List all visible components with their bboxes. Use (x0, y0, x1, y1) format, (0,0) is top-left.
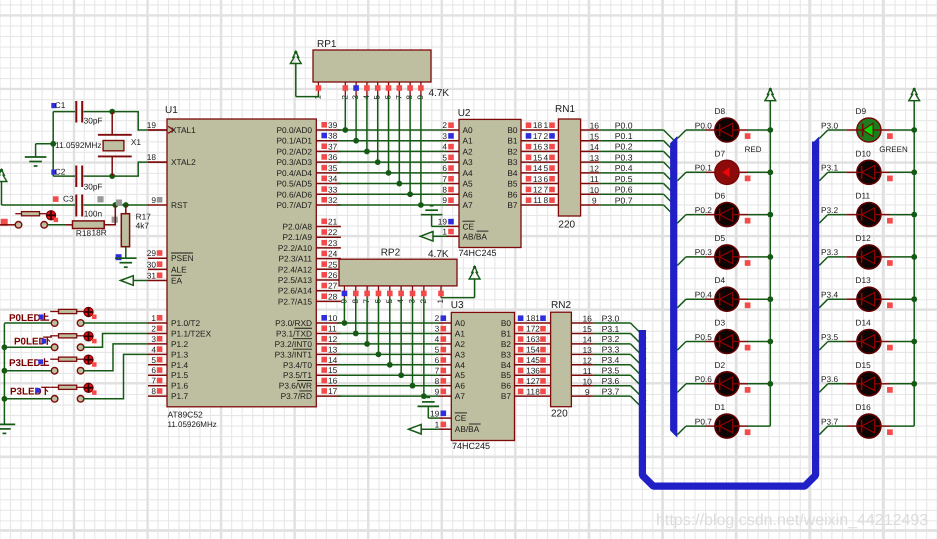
wire D12 to rail (881, 257, 915, 266)
wire U3 B2 to RN (515, 334, 551, 344)
RP1 pin 5 (373, 82, 382, 100)
wire U3 B0 to RN (515, 313, 551, 323)
wire RP2 pin4 to P3.5 (400, 298, 402, 376)
svg-text:30: 30 (147, 259, 157, 269)
svg-text:P0.2: P0.2 (695, 205, 712, 215)
LED D14 (856, 318, 881, 354)
svg-text:16: 16 (582, 314, 592, 324)
pin 1 P1.0 (148, 313, 167, 323)
arrow U3 AB/BA input (409, 424, 422, 434)
arrow EA input (121, 276, 134, 286)
svg-text:14: 14 (533, 163, 543, 173)
node P3.4 junction (387, 362, 393, 368)
svg-text:2: 2 (442, 120, 447, 130)
label net P0.6 (695, 374, 712, 384)
pin 3 P1.2 (148, 334, 167, 344)
svg-text:D14: D14 (856, 318, 872, 328)
svg-text:4: 4 (442, 142, 447, 152)
svg-text:EA: EA (171, 276, 183, 286)
wire bus to D8 (677, 130, 715, 139)
svg-text:5: 5 (535, 355, 540, 365)
svg-text:D6: D6 (715, 191, 726, 201)
svg-text:P3.0/RXD: P3.0/RXD (275, 318, 312, 328)
wire bus to D11 (819, 215, 857, 224)
wire RN2 pin 16 net P3.0 (571, 313, 646, 338)
svg-text:18: 18 (526, 313, 536, 323)
node P3.5 junction (398, 372, 404, 378)
svg-text:4: 4 (543, 152, 548, 162)
svg-text:6: 6 (151, 365, 156, 375)
RP2 pin 1 (436, 286, 445, 304)
U1 pin names right (275, 125, 313, 401)
svg-text:7: 7 (435, 365, 440, 375)
svg-text:5: 5 (151, 355, 156, 365)
switch button 1 (4, 307, 96, 326)
svg-text:P0.2/AD2: P0.2/AD2 (276, 146, 312, 156)
resistor pack RP1 (313, 39, 449, 99)
LED D6 (715, 191, 739, 227)
svg-text:B0: B0 (507, 125, 518, 135)
svg-text:B5: B5 (501, 370, 512, 380)
svg-text:A6: A6 (455, 381, 466, 391)
wire C1 left rail (52, 112, 54, 177)
svg-text:P1.3: P1.3 (171, 349, 188, 359)
node rail1 D3 (767, 339, 773, 345)
RP1 pin 1 (313, 82, 322, 100)
svg-text:12: 12 (582, 356, 592, 366)
wire RP2 pin6 to P3.3 (377, 298, 379, 355)
ground button rail (0, 424, 15, 433)
label net P0.2 (695, 205, 712, 215)
wire P0.2 U1 to U2 (337, 150, 447, 152)
svg-text:21: 21 (328, 217, 338, 227)
svg-text:10: 10 (582, 376, 592, 386)
svg-text:19: 19 (430, 408, 440, 418)
svg-text:7: 7 (151, 376, 156, 386)
wire U2 B5 to RN (521, 174, 558, 184)
svg-text:P3.7: P3.7 (821, 416, 838, 426)
U1 pin names left (171, 125, 212, 401)
svg-text:100n: 100n (84, 208, 103, 218)
wire D3 to rail (739, 342, 771, 351)
svg-text:ALE: ALE (171, 264, 187, 274)
svg-text:14: 14 (328, 355, 338, 365)
svg-text:P0.0: P0.0 (615, 120, 633, 130)
wire P0.0 U1 to U2 (337, 129, 447, 131)
pin 26 P2.5 (316, 270, 341, 280)
pin 22 P2.1 (316, 227, 341, 237)
label P3LED down (10, 387, 50, 398)
svg-text:11: 11 (328, 323, 337, 333)
svg-text:1: 1 (543, 120, 548, 130)
wire D14 to rail (881, 342, 915, 351)
node P0.2 junction (364, 149, 370, 155)
node cap rail junction (50, 141, 56, 147)
svg-text:6: 6 (543, 174, 548, 184)
pin 8 P1.7 (148, 386, 167, 396)
svg-text:A7: A7 (463, 200, 474, 210)
wire bus to D2 (677, 384, 715, 393)
label net P3.0 (821, 120, 838, 130)
node P3.1 junction (353, 331, 359, 337)
wire U2 B7 to RN (521, 195, 558, 205)
U3 pin 19 CE (428, 408, 451, 418)
svg-text:D9: D9 (856, 106, 867, 116)
svg-text:B6: B6 (501, 381, 512, 391)
svg-text:P3.2/INT0: P3.2/INT0 (275, 339, 313, 349)
resistor network RN1 (555, 104, 581, 231)
wire RP2 pin1 to power (441, 297, 475, 299)
wire RN1 pin 10 net P0.6 (581, 185, 677, 208)
svg-text:24: 24 (328, 249, 338, 259)
wire button2 to P1.1 (84, 333, 149, 347)
svg-text:C3: C3 (63, 193, 74, 203)
svg-text:15: 15 (582, 324, 592, 334)
svg-text:RP1: RP1 (317, 39, 337, 50)
svg-text:B2: B2 (501, 339, 512, 349)
wire U2 B0 to RN (521, 120, 558, 130)
resistor network RN2 (551, 300, 572, 420)
RP1 pin 8 (405, 82, 414, 100)
svg-text:B7: B7 (507, 200, 518, 210)
pin 12 P3.2 (316, 334, 341, 344)
svg-text:D15: D15 (856, 360, 872, 370)
svg-text:29: 29 (147, 248, 157, 258)
svg-text:15: 15 (590, 131, 600, 141)
svg-text:P0.6/AD6: P0.6/AD6 (276, 189, 312, 199)
svg-text:B6: B6 (507, 189, 518, 199)
power arrow LED column 2 (909, 88, 920, 101)
svg-text:18R: 18R (92, 228, 107, 238)
pin 35 P0.4 (316, 163, 341, 173)
pin 24 P2.3 (316, 249, 341, 259)
svg-text:7: 7 (442, 174, 447, 184)
wire D2 to rail (739, 384, 771, 393)
svg-text:XTAL1: XTAL1 (171, 125, 196, 135)
svg-text:P3.0: P3.0 (602, 313, 620, 323)
LED D10 (856, 148, 881, 184)
pin 29 PSEN (147, 248, 167, 258)
svg-text:8: 8 (535, 386, 540, 396)
wire P0.1 U1 to U2 (337, 140, 447, 142)
wire bus to D3 (677, 342, 715, 351)
wire C1 to XTAL1 (112, 112, 167, 130)
svg-text:16: 16 (533, 142, 543, 152)
svg-text:PSEN: PSEN (171, 253, 194, 263)
power arrow left edge (0, 169, 7, 205)
svg-text:P0.5/AD5: P0.5/AD5 (276, 179, 312, 189)
wire RP1 pin8 to P0.6 (409, 96, 411, 194)
svg-text:P3.1/TXD: P3.1/TXD (276, 328, 312, 338)
U2 pin 2 A0 (442, 120, 459, 130)
RP1 pin 7 (394, 82, 403, 100)
wire bus to D16 (819, 426, 857, 435)
U3 pin 6 A4 (435, 355, 452, 365)
svg-text:U2: U2 (458, 108, 471, 119)
wire button3 to P1.2 (84, 344, 149, 371)
svg-text:9: 9 (442, 195, 447, 205)
svg-text:D12: D12 (856, 233, 872, 243)
node rail2 D10 (911, 169, 917, 175)
svg-text:https://blog.csdn.net/weixin_4: https://blog.csdn.net/weixin_44212493 (656, 512, 928, 529)
label RED (745, 145, 762, 154)
wire D15 to rail (881, 384, 915, 393)
node P0.3 junction (375, 159, 381, 165)
switch button 2 (4, 332, 96, 351)
U3 pin 8 A6 (435, 376, 452, 386)
svg-text:A0: A0 (455, 318, 466, 328)
svg-text:P3.5: P3.5 (602, 366, 620, 376)
svg-text:32: 32 (328, 195, 338, 205)
svg-text:P0.7/AD7: P0.7/AD7 (276, 200, 312, 210)
svg-text:1: 1 (436, 299, 445, 304)
svg-text:3: 3 (435, 324, 440, 334)
wire RP2 pin3 to P3.6 (412, 298, 414, 386)
pin 7 P1.6 (148, 376, 167, 386)
svg-text:P0.5: P0.5 (615, 174, 633, 184)
svg-text:RST: RST (171, 200, 188, 210)
LED D5 (715, 233, 739, 269)
wire U3 B6 to RN (515, 376, 551, 386)
svg-text:4k7: 4k7 (136, 221, 150, 231)
wire bus to D7 (677, 172, 715, 181)
LED D13 (856, 275, 881, 311)
label net P0.7 (695, 416, 712, 426)
pin 5 P1.4 (148, 355, 167, 365)
svg-text:P0.5: P0.5 (695, 332, 712, 342)
wire P3.2 U1 to U3 (337, 343, 439, 345)
pin 11 P3.1 (316, 323, 341, 333)
wire bus to D4 (677, 299, 715, 308)
svg-text:7: 7 (535, 376, 540, 386)
svg-text:74HC245: 74HC245 (452, 441, 490, 451)
svg-text:P3.2: P3.2 (602, 334, 620, 344)
svg-text:RN1: RN1 (555, 104, 575, 115)
capacitor C3 (53, 193, 103, 218)
svg-text:X1: X1 (131, 137, 142, 147)
resistor R17 (121, 205, 151, 258)
node P0.1 junction (353, 138, 359, 144)
svg-text:D7: D7 (715, 148, 726, 158)
arrow U2 AB/BA input (420, 232, 433, 242)
svg-text:9: 9 (151, 195, 156, 205)
svg-text:P2.2/A10: P2.2/A10 (278, 243, 313, 253)
wire RP1 pin6 to P0.4 (388, 96, 390, 173)
wire D7 to rail (739, 172, 771, 181)
LED D11 (856, 191, 881, 227)
svg-text:16: 16 (526, 334, 536, 344)
svg-text:GREEN: GREEN (879, 145, 908, 154)
svg-text:13: 13 (526, 365, 536, 375)
svg-text:P3.7/RD: P3.7/RD (281, 391, 312, 401)
node rail1 D7 (767, 169, 773, 175)
wire P0.3 U1 to U2 (337, 161, 447, 163)
wire bus to D6 (677, 215, 715, 224)
svg-text:8: 8 (543, 195, 548, 205)
svg-text:8: 8 (435, 376, 440, 386)
svg-text:13: 13 (328, 344, 338, 354)
pin 34 P0.5 (316, 174, 341, 184)
pin 10 P3.0 (316, 313, 341, 323)
svg-text:P3.4: P3.4 (602, 355, 620, 365)
svg-text:19: 19 (438, 217, 448, 227)
RP1 pin 6 (384, 82, 393, 100)
bus P3 top chamfer (812, 136, 819, 143)
svg-text:25: 25 (328, 259, 338, 269)
svg-text:P2.0/A8: P2.0/A8 (282, 222, 312, 232)
wire P0.7 U1 to U2 (337, 204, 447, 206)
svg-text:P3.6/WR: P3.6/WR (279, 381, 312, 391)
label net P3.3 (821, 247, 838, 257)
wire P0.6 U1 to U2 (337, 193, 447, 195)
svg-text:3: 3 (442, 131, 447, 141)
svg-text:C2: C2 (55, 166, 66, 176)
wire bus to D10 (819, 172, 857, 181)
svg-text:P0.4: P0.4 (695, 290, 712, 300)
svg-text:P3.3/INT1: P3.3/INT1 (275, 349, 313, 359)
wire LED rail 1 (769, 101, 771, 426)
svg-text:XTAL2: XTAL2 (171, 157, 196, 167)
svg-text:D13: D13 (856, 275, 872, 285)
node rail2 D12 (911, 254, 917, 260)
svg-text:17: 17 (533, 131, 543, 141)
svg-text:11: 11 (583, 366, 592, 376)
bus P0 LED column (670, 136, 677, 438)
svg-text:RN2: RN2 (551, 300, 571, 311)
pin 32 P0.7 (316, 195, 341, 205)
svg-text:B3: B3 (501, 349, 512, 359)
svg-text:P3.6: P3.6 (821, 374, 838, 384)
svg-text:9: 9 (435, 386, 440, 396)
node P3.2 junction (364, 341, 370, 347)
svg-text:27: 27 (328, 281, 338, 291)
wire U2 B2 to RN (521, 142, 558, 152)
svg-text:11.05926MHz: 11.05926MHz (168, 420, 217, 429)
wire RP1 pin2 to P0.0 (344, 96, 346, 130)
svg-text:B7: B7 (501, 391, 512, 401)
wire RP1 pin5 to P0.3 (377, 96, 379, 162)
svg-text:D5: D5 (715, 233, 726, 243)
svg-text:18: 18 (533, 120, 543, 130)
wire P3.4 U1 to U3 (337, 364, 439, 366)
buffer U2 74HC245 body (458, 108, 521, 258)
wire RN1 pin 11 net P0.5 (581, 174, 677, 197)
ground U3 CE (418, 397, 440, 418)
node P0.4 junction (386, 170, 392, 176)
svg-text:B0: B0 (501, 318, 512, 328)
label net P3.6 (821, 374, 838, 384)
pin 19 XTAL1 (147, 120, 167, 130)
svg-text:CE: CE (455, 413, 467, 423)
node rail2 D9 (911, 127, 917, 133)
svg-text:P0LED: P0LED (9, 313, 41, 324)
wire bus to D13 (819, 299, 857, 308)
svg-text:P3.1: P3.1 (821, 163, 838, 173)
svg-text:P3.2: P3.2 (821, 205, 838, 215)
svg-text:P2.6/A14: P2.6/A14 (278, 286, 313, 296)
svg-text:D4: D4 (715, 275, 726, 285)
pin 39 P0.0 (316, 120, 341, 130)
node RST junction 1 (112, 202, 118, 208)
wire RN1 pin 15 net P0.1 (581, 131, 677, 154)
node rail junction 1 (0, 0, 1, 1)
RP2 pin 2 (419, 286, 428, 304)
wire D6 to rail (739, 215, 771, 224)
LED D4 (715, 275, 739, 311)
svg-text:33: 33 (328, 184, 338, 194)
label net P0.1 (695, 163, 712, 173)
svg-text:14: 14 (590, 142, 600, 152)
pin 23 P2.2 (316, 238, 341, 248)
pin 25 P2.4 (316, 259, 341, 269)
svg-text:P0.4/AD4: P0.4/AD4 (276, 168, 312, 178)
node P0.0 junction (342, 127, 348, 133)
pin 13 P3.3 (316, 344, 341, 354)
wire P3.0 U1 to U3 (337, 322, 439, 324)
wire RP2 pin9 to P3.0 (343, 298, 345, 323)
svg-text:P1.0/T2: P1.0/T2 (171, 318, 200, 328)
svg-text:P1.4: P1.4 (171, 360, 188, 370)
svg-text:22: 22 (328, 227, 338, 237)
wire RN2 pin 14 net P3.2 (571, 334, 646, 359)
svg-text:37: 37 (328, 141, 338, 151)
svg-text:13: 13 (590, 153, 600, 163)
label P0LED down (14, 337, 52, 348)
svg-text:16: 16 (590, 121, 600, 131)
svg-text:5: 5 (543, 163, 548, 173)
RP1 pin 9 (416, 82, 425, 100)
wire U2 B1 to RN (521, 131, 558, 141)
label net P3.2 (821, 205, 838, 215)
svg-text:B2: B2 (507, 146, 518, 156)
wire button1 to P1.0 (84, 322, 149, 324)
wire bus to D15 (819, 384, 857, 393)
label net P3.1 (821, 163, 838, 173)
pin 6 P1.5 (148, 365, 167, 375)
svg-text:CE: CE (463, 221, 475, 231)
switch button 4 (4, 383, 96, 402)
wire D8 to rail (739, 130, 771, 139)
switch button 3 (4, 355, 96, 374)
ground U2 CE (421, 206, 443, 227)
svg-text:220: 220 (551, 409, 568, 420)
pin 28 P2.7 (316, 291, 341, 301)
RP1 pin 3 (351, 82, 360, 100)
svg-text:P0.6: P0.6 (695, 374, 712, 384)
ground crystal (25, 144, 53, 166)
wire U2 B6 to RN (521, 185, 558, 195)
wire D16 to rail (881, 426, 915, 435)
svg-text:P0LED: P0LED (14, 337, 46, 348)
svg-text:P0.3: P0.3 (695, 247, 712, 257)
svg-text:31: 31 (147, 271, 157, 281)
svg-text:P0.0/AD0: P0.0/AD0 (276, 125, 312, 135)
wire U3 B3 to RN (515, 345, 551, 355)
svg-text:11: 11 (533, 195, 542, 205)
RP2 pin 7 (362, 286, 371, 304)
svg-text:2: 2 (435, 313, 440, 323)
svg-text:12: 12 (526, 376, 536, 386)
svg-text:3: 3 (151, 334, 156, 344)
wire D9 to rail (881, 130, 915, 139)
pin 15 P3.5 (316, 365, 341, 375)
U3 pin 1 AB/BA (421, 419, 451, 429)
svg-text:P3LED: P3LED (9, 358, 41, 369)
svg-text:P3.6: P3.6 (602, 376, 620, 386)
wire bus to D14 (819, 342, 857, 351)
svg-text:D8: D8 (715, 106, 726, 116)
svg-text:P3.3: P3.3 (821, 247, 838, 257)
